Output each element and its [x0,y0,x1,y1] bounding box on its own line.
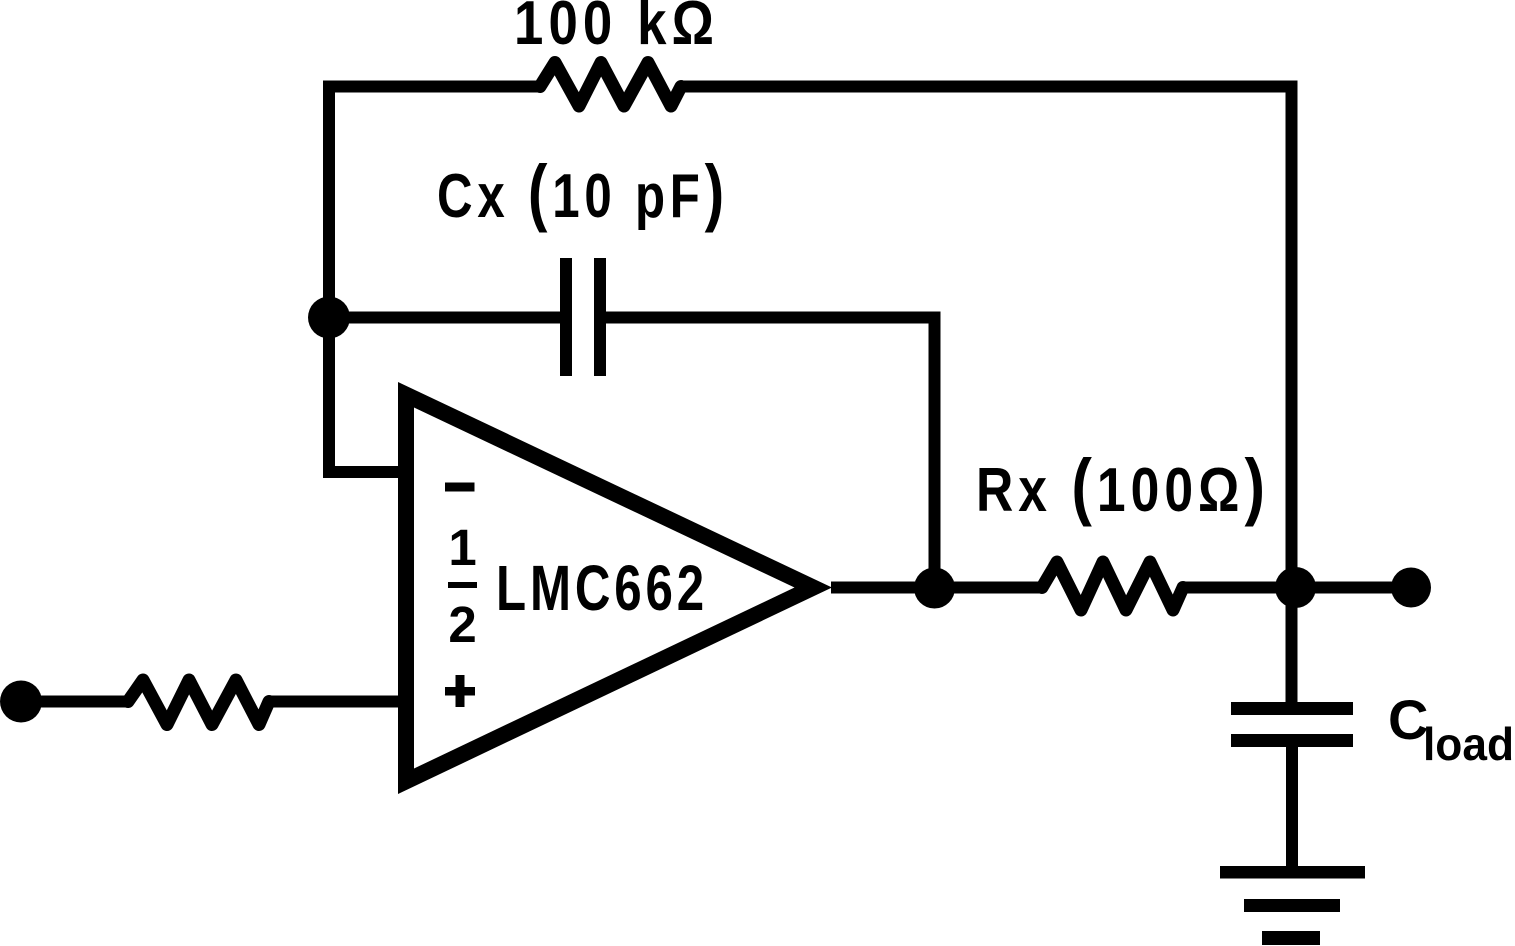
svg-text:load: load [1423,718,1514,770]
svg-text:Rx (100Ω): Rx (100Ω) [976,444,1270,527]
svg-text:Cx (10 pF): Cx (10 pF) [437,150,729,233]
svg-text:LMC662: LMC662 [496,552,708,624]
svg-text:1: 1 [448,519,476,576]
svg-text:2: 2 [448,596,476,653]
svg-text:100 kΩ: 100 kΩ [514,0,719,58]
